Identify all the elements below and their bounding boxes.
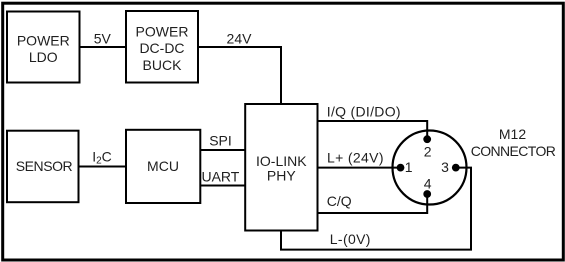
svg-text:L+ (24V): L+ (24V) [327,149,384,165]
svg-text:L-(0V): L-(0V) [330,231,371,247]
svg-text:CONNECTOR: CONNECTOR [471,143,556,159]
pin 3 [441,159,460,175]
wire I2C [79,166,127,168]
block MCU [126,130,200,203]
svg-text:LDO: LDO [29,49,58,65]
block SENSOR [7,131,79,203]
wire 5V [81,46,127,48]
wire UART [200,185,246,187]
pin 2 [423,135,432,159]
svg-text:BUCK: BUCK [143,57,183,73]
svg-text:DC-DC: DC-DC [139,40,184,56]
svg-text:UART: UART [201,169,239,185]
svg-text:C/Q: C/Q [327,193,352,209]
wire L- to pin 3 [281,168,471,250]
block IO-LINK PHY [245,104,317,231]
block POWER DC-DC BUCK [126,11,198,83]
svg-text:I2C: I2C [92,149,112,167]
svg-text:I/Q (DI/DO): I/Q (DI/DO) [327,104,401,120]
wire I/Q to pin 2 [318,121,428,139]
svg-text:MCU: MCU [147,158,179,174]
svg-text:SENSOR: SENSOR [16,158,73,174]
M12 connector circle [393,131,467,205]
label M12 CONNECTOR [471,126,556,159]
svg-text:3: 3 [441,159,449,175]
svg-text:4: 4 [424,175,432,191]
svg-text:POWER: POWER [136,23,189,39]
svg-text:M12: M12 [499,126,526,142]
svg-text:1: 1 [405,159,413,175]
svg-text:24V: 24V [227,31,253,47]
pin 4 [423,175,432,198]
wire C/Q to pin 4 [318,194,428,213]
pin 1 [397,159,413,175]
svg-text:PHY: PHY [267,168,296,184]
wire SPI [200,149,246,151]
svg-text:2: 2 [424,143,432,159]
svg-text:SPI: SPI [209,132,232,148]
block POWER LDO [7,12,80,83]
svg-text:5V: 5V [94,31,112,47]
wire 24V [198,47,281,104]
svg-text:POWER: POWER [17,33,70,49]
wire L+ to pin 1 [318,167,401,169]
